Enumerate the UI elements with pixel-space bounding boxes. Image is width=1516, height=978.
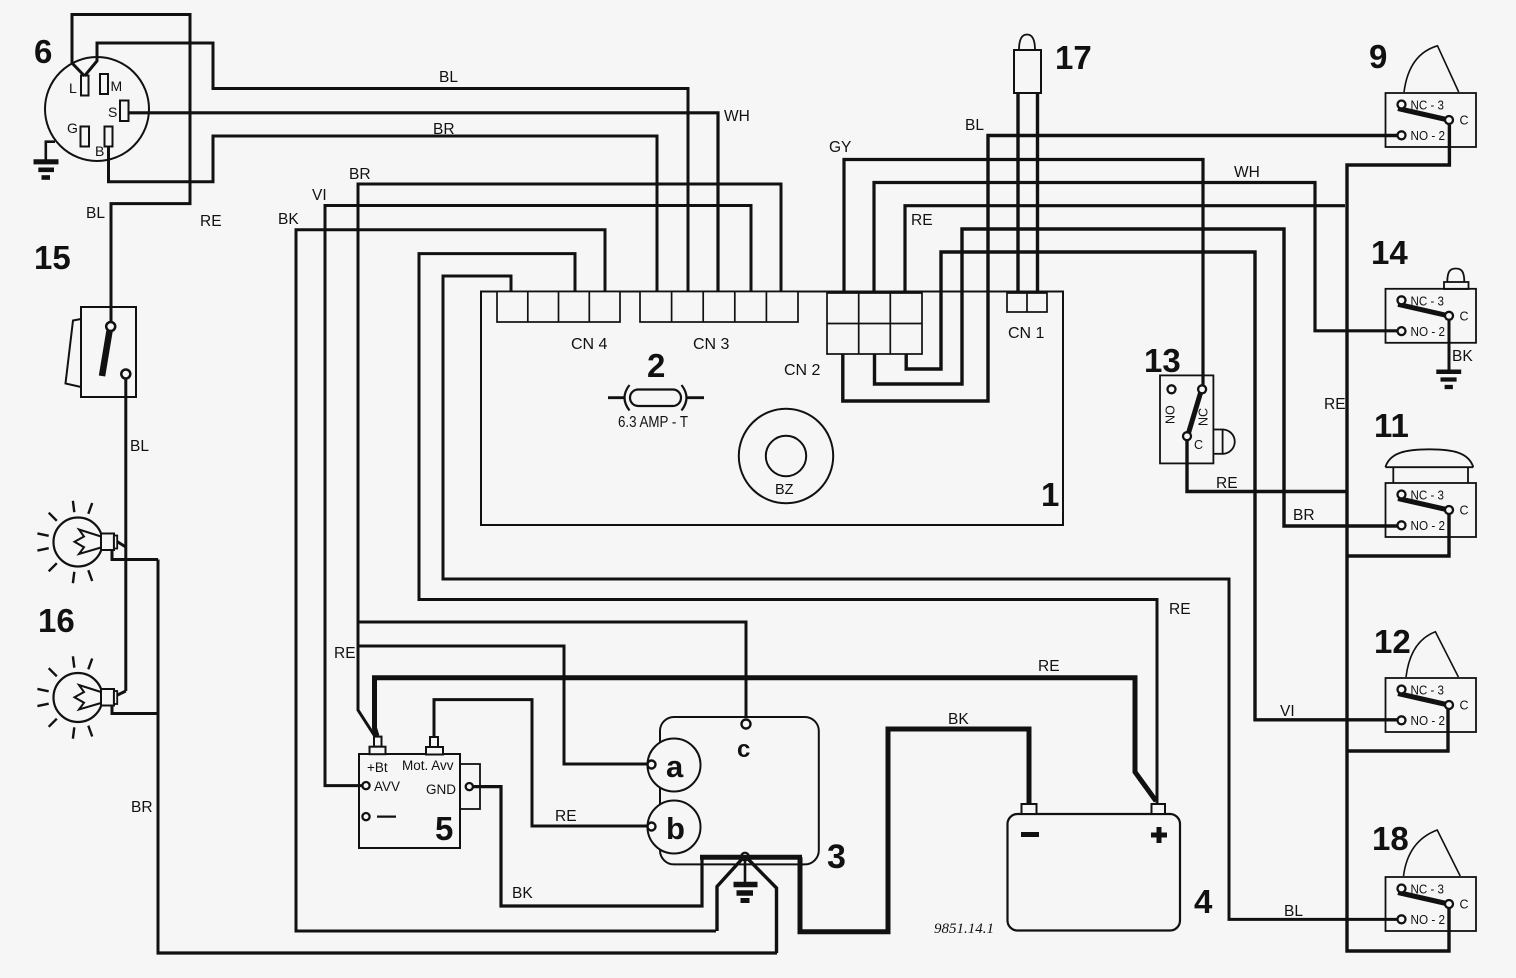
svg-text:BR: BR bbox=[349, 166, 371, 183]
svg-text:BL: BL bbox=[130, 438, 149, 455]
key 17 pins to CN1 bbox=[1018, 93, 1038, 292]
key switch 6 body bbox=[45, 57, 149, 161]
svg-text:6.3 AMP - T: 6.3 AMP - T bbox=[618, 414, 688, 431]
key switch 6 pin S bbox=[108, 101, 129, 122]
svg-text:NC - 3: NC - 3 bbox=[1411, 684, 1445, 698]
switch 9 lever flag bbox=[1404, 46, 1459, 92]
wire RE switch 11 C to bus bbox=[1348, 513, 1449, 556]
label BL bbox=[86, 205, 105, 222]
switch 9 label bbox=[1369, 38, 1387, 75]
switch 14 button bbox=[1444, 269, 1469, 290]
wire RE CN2 to RE bus bbox=[905, 206, 1345, 291]
relay 5 Mot.Avv pin bbox=[426, 737, 443, 755]
connector CN1 bbox=[1007, 293, 1047, 312]
motor ground left leg bbox=[717, 859, 742, 931]
label BL bbox=[439, 69, 458, 86]
label RE bbox=[1169, 601, 1191, 618]
svg-text:6: 6 bbox=[34, 33, 52, 70]
svg-text:AVV: AVV bbox=[374, 779, 400, 794]
svg-text:G: G bbox=[67, 120, 78, 136]
svg-text:11: 11 bbox=[1374, 407, 1409, 444]
switch 15 bottom contact bbox=[121, 370, 130, 379]
wire BR from pin B to CN3 cell 1 bbox=[109, 136, 658, 291]
wire VI CN3 cell4 to relay AVV bbox=[325, 206, 751, 786]
switch 15 lever bbox=[102, 331, 110, 376]
svg-text:NO: NO bbox=[1164, 405, 1178, 424]
svg-text:15: 15 bbox=[34, 239, 71, 276]
svg-text:RE: RE bbox=[334, 645, 356, 662]
label RE bbox=[1216, 475, 1238, 492]
svg-text:b: b bbox=[666, 811, 685, 846]
svg-text:CN 3: CN 3 bbox=[693, 336, 730, 353]
motor terminal a contact bbox=[648, 761, 656, 769]
wire RE Mot.Avv to motor terminal b bbox=[434, 700, 647, 826]
key switch 6 pin M bbox=[100, 74, 122, 94]
label BL bbox=[965, 117, 984, 134]
fuse 2 value label bbox=[618, 414, 688, 431]
label VI bbox=[312, 187, 327, 204]
svg-text:NO - 2: NO - 2 bbox=[1411, 714, 1446, 728]
fuse 2 bbox=[608, 385, 704, 411]
motor terminal circle a bbox=[648, 739, 701, 792]
wire BL switch 15 to lamps bbox=[117, 379, 126, 696]
switch 12 (seat presence) bbox=[1386, 678, 1477, 732]
switch 18 (bag) bbox=[1386, 877, 1477, 931]
relay 5 +Bt pin bbox=[370, 737, 386, 755]
svg-text:2: 2 bbox=[647, 347, 665, 384]
connector CN2 bbox=[827, 293, 922, 354]
wire RE CN2 to switch 11 NO bbox=[875, 229, 1398, 526]
fuse 2 label bbox=[647, 347, 665, 384]
key 17 label bbox=[1055, 39, 1092, 76]
svg-text:C: C bbox=[1460, 309, 1469, 323]
svg-text:NO - 2: NO - 2 bbox=[1411, 913, 1446, 927]
relay 5 AVV contact bbox=[362, 779, 400, 794]
svg-text:RE: RE bbox=[1216, 475, 1238, 492]
svg-text:18: 18 bbox=[1372, 820, 1409, 857]
svg-text:C: C bbox=[1460, 699, 1469, 713]
label RE bbox=[334, 645, 356, 662]
label BR bbox=[433, 121, 455, 138]
switch 15 top contact bbox=[106, 322, 115, 331]
svg-text:NO - 2: NO - 2 bbox=[1411, 325, 1446, 339]
wire BR CN2 to switch 12 NO bbox=[906, 252, 1397, 720]
wire BR rail to motor chassis ground bbox=[157, 951, 778, 954]
wire BR lamp 16 ground rail bbox=[112, 551, 158, 953]
svg-text:BL: BL bbox=[439, 69, 458, 86]
cable BK battery minus to motor chassis bbox=[800, 729, 1029, 932]
label RE bbox=[911, 212, 933, 229]
svg-text:CN 4: CN 4 bbox=[571, 336, 608, 353]
connector CN4 bbox=[497, 292, 620, 323]
svg-text:NC - 3: NC - 3 bbox=[1411, 489, 1445, 503]
switch 11 mushroom button bbox=[1385, 449, 1473, 483]
svg-text:13: 13 bbox=[1144, 342, 1181, 379]
switch 13 NO contact bbox=[1164, 385, 1178, 424]
svg-text:9851.14.1: 9851.14.1 bbox=[934, 921, 994, 937]
svg-text:3: 3 bbox=[827, 838, 846, 876]
wire BR CN3 cell5 to motor terminal c bbox=[358, 184, 781, 737]
label RE bbox=[1038, 658, 1060, 675]
wire WH CN2 to switch 14 NO bbox=[874, 183, 1398, 331]
buzzer BZ label bbox=[775, 482, 794, 498]
switch 15 actuator bbox=[66, 319, 82, 387]
switch 18 lever flag bbox=[1404, 830, 1461, 876]
switch 11 label bbox=[1374, 407, 1409, 444]
buzzer BZ bbox=[739, 409, 833, 503]
label BK bbox=[278, 211, 299, 228]
svg-text:+Bt: +Bt bbox=[367, 760, 388, 775]
motor 3 housing bbox=[660, 717, 819, 864]
svg-text:4: 4 bbox=[1194, 883, 1213, 920]
svg-text:NO - 2: NO - 2 bbox=[1411, 519, 1446, 533]
battery 4 label bbox=[1194, 883, 1213, 920]
svg-text:VI: VI bbox=[312, 187, 327, 204]
switch 13 box bbox=[1160, 375, 1213, 463]
svg-text:1: 1 bbox=[1041, 476, 1059, 513]
switch 13 NC contact bbox=[1197, 385, 1211, 426]
svg-text:BL: BL bbox=[86, 205, 105, 222]
key switch 6 pin G bbox=[67, 120, 89, 147]
switch 12 lever flag bbox=[1406, 632, 1458, 677]
label RE bbox=[555, 808, 577, 825]
battery plus terminal bbox=[1152, 804, 1166, 814]
svg-text:BR: BR bbox=[1293, 507, 1315, 524]
control unit box 1 bbox=[481, 292, 1063, 526]
label BK bbox=[948, 711, 969, 728]
connector CN2 label bbox=[784, 362, 821, 379]
switch 13 lever bbox=[1189, 393, 1201, 433]
battery minus terminal bbox=[1022, 804, 1037, 814]
label BK bbox=[1452, 348, 1473, 365]
label BL bbox=[130, 438, 149, 455]
relay 5 GND terminal bbox=[460, 764, 480, 809]
motor 3 label bbox=[827, 838, 846, 876]
svg-text:RE: RE bbox=[555, 808, 577, 825]
label WH bbox=[1234, 164, 1260, 181]
wire RE branch to motor terminal a bbox=[358, 646, 647, 764]
svg-text:BK: BK bbox=[1452, 348, 1473, 365]
svg-text:B: B bbox=[95, 143, 104, 159]
key 17 body bbox=[1014, 35, 1041, 94]
wire WH from pin S to CN3 cell 3 bbox=[129, 113, 718, 291]
motor chassis ground symbol bbox=[734, 860, 758, 901]
wire BL CN4 cell1 to switch 18 bbox=[443, 276, 1398, 919]
svg-text:5: 5 bbox=[435, 810, 453, 847]
svg-text:C: C bbox=[1460, 504, 1469, 518]
motor terminal b contact bbox=[648, 823, 656, 831]
relay 5 label bbox=[435, 810, 453, 847]
motor chassis thick bar bbox=[700, 855, 802, 860]
svg-text:NO - 2: NO - 2 bbox=[1411, 129, 1446, 143]
wire BK CN4 cell4 to battery minus rail bbox=[296, 230, 716, 931]
svg-text:BR: BR bbox=[433, 121, 455, 138]
label BR bbox=[349, 166, 371, 183]
wire BK relay GND to motor chassis bbox=[473, 787, 702, 906]
switch 15 box bbox=[81, 307, 136, 397]
switch 18 label bbox=[1372, 820, 1409, 857]
svg-text:BL: BL bbox=[1284, 903, 1303, 920]
svg-text:C: C bbox=[1460, 114, 1469, 128]
cable RE battery plus to relay +Bt bbox=[375, 678, 1157, 801]
svg-text:L: L bbox=[69, 80, 77, 96]
svg-text:CN 1: CN 1 bbox=[1008, 325, 1045, 342]
switch 14 (brake) bbox=[1386, 289, 1477, 343]
svg-text:NC - 3: NC - 3 bbox=[1411, 294, 1445, 308]
connector CN3 bbox=[640, 292, 798, 323]
connector CN4 label bbox=[571, 336, 608, 353]
wire RE switch 12 C to bus bbox=[1348, 709, 1448, 751]
relay 5 +Bt label bbox=[367, 760, 388, 775]
wire BL key switch branch to CN3 cell 2 bbox=[85, 43, 689, 291]
switch 13 label bbox=[1144, 342, 1181, 379]
svg-text:BK: BK bbox=[512, 885, 533, 902]
label RE bbox=[1324, 396, 1346, 413]
label BL bbox=[1284, 903, 1303, 920]
key switch 6 label bbox=[34, 33, 52, 70]
battery 4 body bbox=[1008, 814, 1181, 931]
svg-text:NC: NC bbox=[1197, 408, 1211, 426]
wire RE branch to motor terminal c bbox=[358, 622, 746, 718]
wire RE CN4 cell3 bridge to battery plus bbox=[419, 254, 1157, 805]
label BR bbox=[1293, 507, 1315, 524]
wire RE switch 13 C to bus bbox=[1187, 440, 1346, 492]
svg-text:BR: BR bbox=[131, 799, 153, 816]
motor ground right leg bbox=[748, 859, 777, 953]
svg-text:C: C bbox=[1194, 438, 1203, 452]
svg-text:WH: WH bbox=[1234, 164, 1260, 181]
svg-text:RE: RE bbox=[1324, 396, 1346, 413]
svg-text:CN 2: CN 2 bbox=[784, 362, 821, 379]
key switch 6 pin B bbox=[95, 127, 113, 160]
svg-text:BK: BK bbox=[948, 711, 969, 728]
svg-text:RE: RE bbox=[200, 213, 222, 230]
battery minus symbol bbox=[1021, 832, 1039, 837]
battery plus symbol bbox=[1151, 827, 1167, 843]
relay 5 Mot. Avv label bbox=[402, 758, 454, 773]
switch 11 (PTO) bbox=[1386, 483, 1477, 537]
svg-text:GY: GY bbox=[829, 139, 851, 156]
svg-text:GND: GND bbox=[426, 782, 456, 797]
svg-text:M: M bbox=[111, 78, 123, 94]
svg-text:WH: WH bbox=[724, 108, 750, 125]
svg-text:12: 12 bbox=[1374, 623, 1411, 660]
switch 14 label bbox=[1371, 234, 1408, 271]
wire GY CN2 to switch 13 NC bbox=[844, 160, 1203, 386]
switch 12 label bbox=[1374, 623, 1411, 660]
svg-text:14: 14 bbox=[1371, 234, 1408, 271]
svg-text:RE: RE bbox=[1169, 601, 1191, 618]
svg-text:c: c bbox=[737, 736, 750, 763]
drawing number bbox=[934, 921, 994, 937]
switch 13 plunger bbox=[1213, 430, 1234, 454]
label VI bbox=[1280, 703, 1295, 720]
svg-text:RE: RE bbox=[1038, 658, 1060, 675]
motor terminal c contact bbox=[737, 720, 751, 764]
motor chassis ground junction bbox=[741, 853, 749, 861]
svg-text:BZ: BZ bbox=[775, 482, 794, 498]
connector CN3 label bbox=[693, 336, 730, 353]
motor terminal circle b bbox=[648, 801, 701, 854]
svg-text:NC - 3: NC - 3 bbox=[1411, 883, 1445, 897]
ground at switch 14 bbox=[1436, 319, 1461, 387]
svg-text:a: a bbox=[666, 749, 684, 784]
svg-text:BL: BL bbox=[965, 117, 984, 134]
label GY bbox=[829, 139, 851, 156]
label WH bbox=[724, 108, 750, 125]
lamps 16 label bbox=[38, 602, 75, 639]
label BR bbox=[131, 799, 153, 816]
switch 13 C contact bbox=[1183, 432, 1203, 452]
svg-text:BK: BK bbox=[278, 211, 299, 228]
control unit 1 label bbox=[1041, 476, 1059, 513]
svg-text:16: 16 bbox=[38, 602, 75, 639]
svg-text:S: S bbox=[108, 104, 117, 120]
label RE bbox=[200, 213, 222, 230]
key switch 6 pin L bbox=[69, 76, 89, 97]
wire RE switch 9 C to bus bbox=[1347, 125, 1449, 951]
svg-text:NC - 3: NC - 3 bbox=[1411, 99, 1445, 113]
svg-text:Mot. Avv: Mot. Avv bbox=[402, 758, 454, 773]
switch 15 label bbox=[34, 239, 71, 276]
relay 5 minus contact bbox=[362, 813, 396, 820]
lamp 16 upper bulb bbox=[37, 501, 117, 583]
svg-text:VI: VI bbox=[1280, 703, 1295, 720]
svg-text:RE: RE bbox=[911, 212, 933, 229]
svg-text:9: 9 bbox=[1369, 38, 1387, 75]
switch 9 (seat) bbox=[1386, 93, 1477, 147]
svg-text:C: C bbox=[1460, 898, 1469, 912]
ground at key switch 6 bbox=[34, 142, 59, 178]
lamp 16 lower bulb bbox=[37, 656, 117, 738]
wire BL CN2 to switch 9 NO bbox=[843, 136, 1398, 402]
relay 5 GND label bbox=[426, 782, 456, 797]
svg-text:17: 17 bbox=[1055, 39, 1092, 76]
label BK bbox=[512, 885, 533, 902]
connector CN1 label bbox=[1008, 325, 1045, 342]
wire BL from pin L to switch 15 bbox=[72, 15, 190, 323]
starter relay 5 box bbox=[359, 754, 460, 848]
